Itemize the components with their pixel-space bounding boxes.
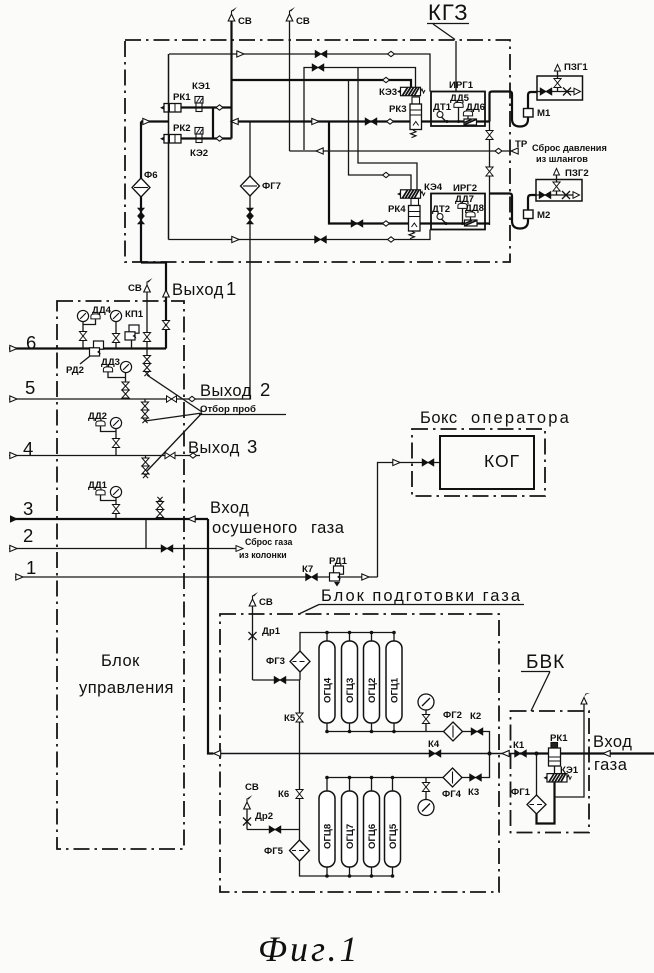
svg-text:Выход: Выход [200, 382, 252, 400]
ИРГ1 box [431, 80, 485, 126]
svg-text:Др2: Др2 [255, 811, 273, 822]
svg-text:Отбор проб: Отбор проб [200, 404, 256, 415]
valve at box entry [422, 459, 434, 466]
svg-text:3: 3 [247, 436, 257, 457]
valve on line 2 [161, 545, 173, 552]
svg-text:4: 4 [23, 438, 33, 459]
column ОГЦ5 [385, 778, 401, 877]
wire: x=213 link between rows [212, 108, 214, 139]
svg-text:Выход: Выход [188, 439, 240, 457]
svg-text:ПЗГ1: ПЗГ1 [564, 62, 588, 73]
wire: upper top manifold [300, 633, 394, 652]
solenoid КЭ2 [190, 128, 208, 160]
svg-text:КЭ1: КЭ1 [192, 81, 211, 92]
svg-text:ИРГ2: ИРГ2 [453, 183, 477, 194]
svg-text:КГЗ: КГЗ [428, 0, 469, 25]
Выход 1 riser: vent arrow + valve [162, 290, 169, 330]
sampling pointer lines [145, 375, 202, 471]
sensor ДД6 [463, 102, 485, 125]
svg-text:ФГ7: ФГ7 [262, 181, 281, 192]
central vertical К5/К6 [278, 672, 303, 840]
wire: lower bottom manifold [300, 861, 395, 876]
svg-text:ФГ2: ФГ2 [443, 710, 462, 721]
svg-text:БВК: БВК [526, 652, 565, 673]
wire: branch x=348.5 down to KЭ4 pilot [349, 80, 412, 190]
svg-text:КЭ2: КЭ2 [190, 148, 208, 159]
arrow on line 1 [362, 574, 369, 580]
text Сброс давления из шлангов [532, 143, 607, 164]
svg-text:ИРГ1: ИРГ1 [449, 80, 474, 91]
arrow on Ф6 feed [143, 118, 150, 124]
svg-text:5: 5 [25, 377, 35, 398]
svg-text:К7: К7 [302, 564, 313, 575]
wire: thick supply y=80 to KЭ3 [232, 80, 412, 88]
sampling tap below line 5 [141, 399, 148, 423]
node on y54 [388, 51, 395, 56]
node on РК1 row [216, 105, 223, 110]
svg-text:оператора: оператора [471, 409, 571, 427]
svg-text:газа: газа [311, 519, 345, 537]
valve on x489.5 upper [486, 131, 493, 140]
svg-text:Бокс: Бокс [420, 409, 458, 427]
filter Ф6 [132, 122, 158, 198]
ИРГ2 box [431, 183, 485, 230]
vent СВ + Др1 throttle [249, 592, 281, 680]
svg-text:КЭ3: КЭ3 [379, 87, 397, 98]
svg-text:РК4: РК4 [388, 204, 406, 215]
wire: Выход1 drop (thick) [141, 263, 166, 349]
node on РК4 row [383, 221, 390, 226]
svg-text:К4: К4 [428, 739, 440, 750]
svg-text:ОГЦ8: ОГЦ8 [323, 823, 334, 849]
svg-text:К5: К5 [284, 713, 296, 724]
wire: ТР relief line y=151 [290, 150, 511, 152]
svg-text:ФГ5: ФГ5 [264, 846, 284, 857]
label Блок подготовки газа [300, 587, 524, 614]
label Отбор проб [199, 404, 286, 415]
sensor ДД8 [465, 203, 485, 226]
svg-text:ОГЦ5: ОГЦ5 [388, 823, 399, 849]
junction dots ИРГ taps [445, 120, 465, 225]
КГЗ dash-dot border box [125, 40, 510, 262]
label Выход 1 [172, 278, 236, 299]
svg-text:3: 3 [23, 498, 33, 519]
wire: link line3-line2 [145, 519, 147, 549]
svg-text:РК3: РК3 [389, 104, 407, 115]
arrow + text Сброс газа из колонки [236, 537, 293, 560]
solenoid КЭ3 [379, 87, 425, 98]
filter ФГ7 [241, 122, 281, 197]
node on y175 [383, 172, 390, 177]
junction dots lower ends [325, 730, 491, 756]
valve on main line [365, 118, 377, 125]
node on y80 [383, 77, 390, 82]
wire: line 1 [15, 557, 378, 580]
valve on return line [315, 236, 327, 243]
node on return line [388, 237, 395, 242]
vent СВ (left riser) [228, 7, 252, 27]
double valve under ФГ7 + riser to Выход2 [247, 196, 254, 399]
hose to М1 [490, 92, 538, 127]
wire: branch x=358 down to KЭ4 right [358, 68, 417, 191]
wire: left vent riser x=231.5 [230, 21, 232, 139]
device КОГ [440, 436, 534, 489]
arrow on relief line [316, 148, 323, 154]
svg-text:ФГ4: ФГ4 [442, 789, 462, 800]
wire: x=168.5 supply vertical [168, 54, 170, 240]
wire: main line through ИРГ1 to x=489.5 [422, 120, 490, 122]
node on РК2 row [216, 136, 223, 141]
gauge+sensor ДД3 [101, 357, 132, 399]
label Вход газа [593, 733, 632, 774]
vent СВ (right riser) [286, 7, 310, 27]
filter ФГ5 [264, 840, 310, 861]
arrow on return line [232, 236, 239, 242]
svg-text:К6: К6 [278, 789, 289, 800]
svg-text:ДД2: ДД2 [88, 411, 107, 422]
column ОГЦ3 [342, 633, 358, 732]
wire: return line y=239.5 [169, 230, 431, 240]
КГЗ label with underline and pointer [427, 0, 469, 40]
vent СВ + Др2 throttle [243, 782, 273, 830]
column blow-off tap above line 3 [156, 497, 163, 519]
wire: main line y=121.5 [232, 120, 411, 122]
wire: line 2 [9, 525, 240, 552]
wire: right vent riser x=289.5 down to relief line [289, 21, 291, 151]
wire: ФГ1 to КЭ1 link [537, 782, 555, 824]
wire: riser to operator box [378, 463, 441, 578]
svg-text:РД2: РД2 [66, 365, 84, 376]
wire: РК4 row into ИРГ2 and out to x=489.5 [420, 222, 490, 224]
svg-text:Блок подготовки газа: Блок подготовки газа [321, 587, 522, 605]
wire: Ф6 feed to x=168.5 [141, 120, 169, 122]
valve on x489.5 lower [486, 167, 493, 176]
column ОГЦ6 [364, 778, 380, 877]
connector М1 [524, 108, 551, 119]
ПЗГ1 internal line with valves [537, 88, 581, 96]
column ОГЦ1 [386, 633, 402, 732]
wire: line 3 (thick) [10, 498, 208, 523]
label Выход 3 [188, 436, 257, 457]
svg-text:ОГЦ4: ОГЦ4 [323, 677, 334, 703]
junction dots upper manifold [325, 631, 396, 635]
junction dots lower manifold [325, 874, 394, 878]
filter ФГ4 [442, 768, 462, 800]
valve on y54 [315, 51, 327, 58]
solenoid КЭ1 [192, 81, 211, 112]
arrow on y54 [237, 51, 244, 57]
node on main line [387, 119, 394, 124]
svg-text:М2: М2 [537, 210, 550, 221]
svg-text:Фиг.1: Фиг.1 [258, 929, 361, 969]
sensor ДД7 [455, 194, 474, 224]
arrow into gas-prep [502, 750, 509, 756]
svg-text:Вход: Вход [210, 499, 249, 517]
svg-text:Др1: Др1 [262, 626, 281, 637]
svg-text:газа: газа [594, 756, 628, 774]
gauge on lower manifold [418, 778, 434, 816]
valve on line 4 [165, 452, 175, 458]
svg-text:1: 1 [226, 278, 236, 299]
svg-text:ДД1: ДД1 [88, 480, 108, 491]
svg-text:СВ: СВ [245, 782, 259, 793]
svg-text:ДТ1: ДТ1 [433, 102, 452, 113]
svg-text:СВ: СВ [128, 283, 142, 294]
node ТР [495, 139, 528, 154]
wire: y=67.5 relief branch to KЭ3 [304, 68, 416, 151]
column ОГЦ2 [364, 633, 380, 732]
filter ФГ3 [266, 651, 310, 672]
wire: line 5 [9, 377, 250, 402]
svg-text:К3: К3 [468, 787, 479, 798]
svg-text:осушеного: осушеного [212, 519, 298, 537]
valve К3 [468, 774, 481, 798]
column ОГЦ7 [342, 778, 358, 877]
double valve under Ф6 [138, 197, 145, 263]
arrow Вход газа [603, 750, 610, 756]
wire: БВК main line + Вход газа (thick) [520, 752, 654, 754]
valve К2 [470, 711, 483, 735]
junction dots lower top manifold [325, 776, 394, 780]
svg-text:Блок: Блок [101, 652, 140, 670]
sensor ДТ2 [432, 204, 450, 224]
wire: line 6 [9, 332, 166, 353]
svg-text:РД1: РД1 [329, 556, 348, 567]
sampling tap below line 4 [142, 456, 149, 479]
ПЗГ2 internal line with valves [536, 191, 580, 199]
valve on line 5 [167, 396, 177, 402]
БВК label with pointer [521, 652, 565, 711]
regulator РД2 on line 6 [66, 341, 104, 376]
sampling tap below line 6 [143, 349, 150, 377]
arrow on line 3 [188, 516, 195, 522]
svg-text:СВ: СВ [296, 16, 310, 27]
svg-text:Вход: Вход [593, 733, 632, 751]
wire: branch x=329 down to РК4 row [329, 122, 409, 224]
ПЗГ2 vent branch [553, 169, 560, 196]
svg-text:ДД3: ДД3 [101, 357, 120, 368]
arrow at feed left end [214, 750, 221, 756]
svg-text:управления: управления [79, 679, 174, 697]
svg-text:Сброс газа: Сброс газа [245, 537, 293, 547]
svg-text:РК1: РК1 [173, 92, 191, 103]
arrows on main line [231, 118, 238, 124]
ПЗГ1 box [537, 62, 588, 100]
connector М2 [524, 210, 551, 221]
valve К4 [428, 739, 441, 757]
svg-text:1: 1 [26, 557, 36, 578]
filter ФГ2 [443, 710, 463, 741]
svg-text:2: 2 [260, 379, 270, 400]
sensor ДД5 [450, 93, 470, 122]
gauge at КП1 [110, 310, 121, 348]
node on line 5 [189, 396, 196, 401]
junction node at ФГ1 tee [535, 752, 539, 756]
svg-text:из шлангов: из шлангов [536, 154, 588, 164]
label Вход осушеного газа [210, 499, 345, 537]
svg-text:РК2: РК2 [173, 123, 191, 134]
wire: vent link to ФГ3 bottom [253, 677, 301, 684]
svg-text:КОГ: КОГ [484, 451, 520, 471]
valve on РК4 row [351, 220, 363, 227]
wire: line 4 [9, 438, 200, 459]
valve К7 [302, 564, 317, 581]
solenoid КЭ4 [397, 182, 443, 198]
svg-text:ПЗГ2: ПЗГ2 [565, 168, 589, 179]
regulator РК3 [389, 97, 422, 138]
label Выход 2 [200, 379, 270, 400]
БВК dash-dot box [511, 711, 590, 833]
svg-text:ТР: ТР [515, 139, 528, 150]
gauge on upper manifold [418, 694, 434, 732]
vent СВ above line 6 [128, 278, 153, 349]
Блок подготовки газа dash-dot box [220, 614, 499, 892]
wire: lower top manifold [327, 754, 490, 778]
svg-text:СВ: СВ [259, 597, 273, 608]
label Бокс оператора [420, 409, 571, 427]
svg-text:Выход: Выход [172, 281, 224, 299]
Бокс оператора dash-dot box [412, 429, 545, 496]
regulator РК1 (БВК) [549, 733, 569, 766]
Блок управления dash-dot box [57, 301, 184, 849]
column ОГЦ8 [319, 778, 335, 877]
svg-text:ОГЦ3: ОГЦ3 [345, 678, 356, 703]
regulator РД1 [329, 556, 348, 587]
svg-text:КЭ1: КЭ1 [560, 765, 579, 776]
svg-text:КЭ4: КЭ4 [424, 182, 443, 193]
wire: upper bottom manifold [327, 732, 490, 754]
wire: РК1 row y=107.5 [181, 106, 232, 108]
wire: main feed line y=753.5 [208, 753, 520, 755]
regulator РК4 [388, 199, 420, 239]
valve on y67.5 [312, 64, 324, 71]
svg-text:КП1: КП1 [125, 309, 144, 320]
svg-text:М1: М1 [537, 108, 551, 119]
wire: right column x=489.5 [489, 92, 491, 226]
svg-text:ФГ3: ФГ3 [266, 656, 285, 667]
wire: thick drop from line3 to gas-prep feed [208, 519, 213, 754]
svg-text:РК1: РК1 [550, 733, 568, 744]
gauge+sensor ДД1 [88, 480, 122, 519]
sensor ДТ1 [433, 102, 452, 122]
wire: РК2 row y=138.5 [181, 137, 232, 139]
svg-text:ОГЦ1: ОГЦ1 [390, 677, 401, 703]
arrow to КОГ [393, 459, 400, 465]
ПЗГ2 box [536, 168, 589, 201]
wire: stub from y54 into ИРГ1 top [455, 41, 457, 92]
label Блок управления [79, 652, 174, 697]
svg-text:ОГЦ2: ОГЦ2 [367, 678, 378, 703]
wire: vent link to ФГ5 line [247, 826, 300, 833]
regulator РК2 [160, 123, 191, 143]
svg-text:2: 2 [23, 525, 33, 546]
svg-text:СВ: СВ [238, 16, 252, 27]
valve К1 [513, 740, 526, 757]
svg-text:ОГЦ6: ОГЦ6 [367, 824, 378, 849]
svg-text:ФГ1: ФГ1 [511, 787, 531, 798]
svg-text:из колонки: из колонки [239, 550, 287, 560]
wire: y=54 line to IRG1 [169, 54, 430, 92]
column ОГЦ4 [319, 633, 335, 732]
svg-text:К2: К2 [470, 711, 481, 722]
regulator РК1 [160, 92, 191, 112]
wire: БВК vent riser [555, 693, 591, 797]
svg-text:Сброс давления: Сброс давления [532, 143, 607, 153]
svg-text:К1: К1 [513, 740, 525, 751]
svg-text:ОГЦ7: ОГЦ7 [345, 824, 356, 849]
gauge+sensor ДД4 [77, 305, 111, 349]
hose to М2 [490, 194, 537, 229]
svg-text:Ф6: Ф6 [144, 170, 158, 181]
solenoid КЭ1 (БВК) [544, 765, 579, 782]
node on line 4 [190, 453, 197, 458]
svg-text:6: 6 [26, 332, 36, 353]
ПЗГ1 vent branch [554, 65, 561, 92]
gauge+sensor ДД2 [88, 411, 122, 456]
filter ФГ1 [511, 754, 546, 815]
relief valve КП1 [125, 309, 144, 349]
